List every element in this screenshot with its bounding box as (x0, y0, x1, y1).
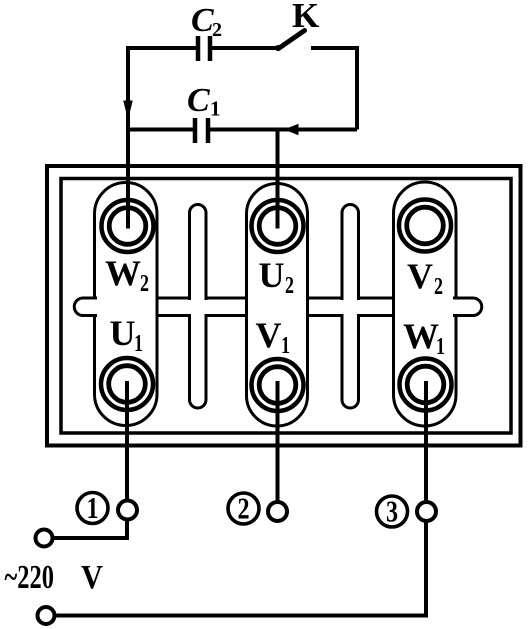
svg-text:K: K (292, 0, 319, 35)
wire: U1 stem down to post 1 (125, 381, 129, 501)
svg-text:W: W (105, 253, 141, 293)
slot: vertical slot between strip2 and strip3 (340, 205, 362, 409)
svg-text:2: 2 (237, 492, 249, 527)
svg-text:2: 2 (140, 270, 149, 297)
wire: W1 stem down to post 3 (424, 381, 428, 503)
svg-text:C: C (191, 2, 214, 39)
wire: post 3 down to bottom wire to supply (54, 521, 426, 616)
terminal U1 (101, 358, 153, 410)
wire: second horizontal, left stem to C1 (128, 128, 194, 132)
svg-text:V: V (81, 559, 103, 596)
label ~220 V (5, 559, 104, 596)
label C1 (187, 82, 221, 121)
svg-text:1: 1 (86, 491, 98, 526)
tab: left tab on strip 1 (74, 298, 97, 316)
svg-text:V: V (256, 315, 282, 355)
label W1 (403, 316, 445, 360)
post terminal 2 (268, 502, 287, 521)
wire: right side to junction with left arrow (278, 124, 358, 135)
wire: V1 stem down to post 2 (276, 381, 280, 503)
terminal strip 3 (V2-W1) (394, 182, 457, 426)
svg-text:U: U (259, 255, 285, 295)
svg-text:1: 1 (134, 330, 143, 357)
terminal U2 (252, 200, 304, 252)
wire: junction stem down to U2 center (276, 130, 280, 227)
supply terminal B (38, 607, 55, 624)
wire: top-left horizontal from left stem to C2 (126, 46, 196, 50)
label U2 (259, 255, 295, 299)
svg-text:3: 3 (386, 495, 398, 530)
channel: horizontal bar between strip1 and strip2 (156, 298, 247, 316)
capacitor C2 (198, 36, 210, 61)
svg-text:W: W (403, 316, 439, 356)
supply terminal A (36, 530, 53, 547)
node label 3 (circled) (377, 495, 408, 530)
svg-text:~220: ~220 (5, 559, 54, 596)
label V1 (256, 315, 291, 359)
terminal V1 (252, 359, 304, 411)
svg-text:2: 2 (434, 273, 443, 300)
wire: stem into U2 (over circles) (276, 184, 280, 229)
node label 1 (circled) (77, 491, 108, 526)
post terminal 1 (118, 501, 137, 520)
svg-text:2: 2 (285, 272, 294, 299)
svg-text:U: U (110, 313, 136, 353)
wire: switch contact to right corner, down right side (311, 48, 357, 130)
terminal W2 (102, 200, 154, 252)
svg-text:1: 1 (281, 332, 290, 359)
tab: right tab on strip 3 (453, 298, 482, 316)
post terminal 3 (417, 502, 436, 521)
label C2 (191, 2, 222, 41)
terminal W1 (400, 359, 452, 411)
terminal box inner (61, 179, 511, 434)
node label 2 (circled) (228, 492, 259, 527)
switch K (275, 31, 305, 52)
terminal strip 1 (W2-U1) (95, 183, 158, 426)
svg-text:1: 1 (210, 97, 221, 121)
svg-text:2: 2 (212, 19, 222, 41)
channel: horizontal bar between strip2 and strip3 (307, 298, 394, 316)
svg-text:1: 1 (436, 333, 445, 360)
wire: left stem vertical from top wire to W2 center (126, 46, 130, 226)
wire: stem into W2 (over circles) (126, 183, 130, 229)
terminal strip 2 (U2-V1) (247, 184, 308, 427)
arrow: down arrow on left stem (123, 101, 133, 120)
wire: post 1 down-left to supply (52, 519, 127, 539)
label U1 (110, 313, 144, 357)
label V2 (407, 256, 443, 300)
label K (292, 0, 319, 35)
label W2 (105, 253, 149, 297)
svg-text:C: C (187, 82, 210, 119)
terminal box outer (47, 166, 521, 446)
wire: C2 to switch (212, 46, 278, 50)
terminal V2 (399, 200, 451, 252)
svg-text:V: V (407, 256, 433, 296)
wire: C1 to junction (210, 128, 278, 132)
capacitor C1 (195, 118, 208, 143)
slot: vertical slot between strip1 and strip2 (187, 205, 209, 409)
